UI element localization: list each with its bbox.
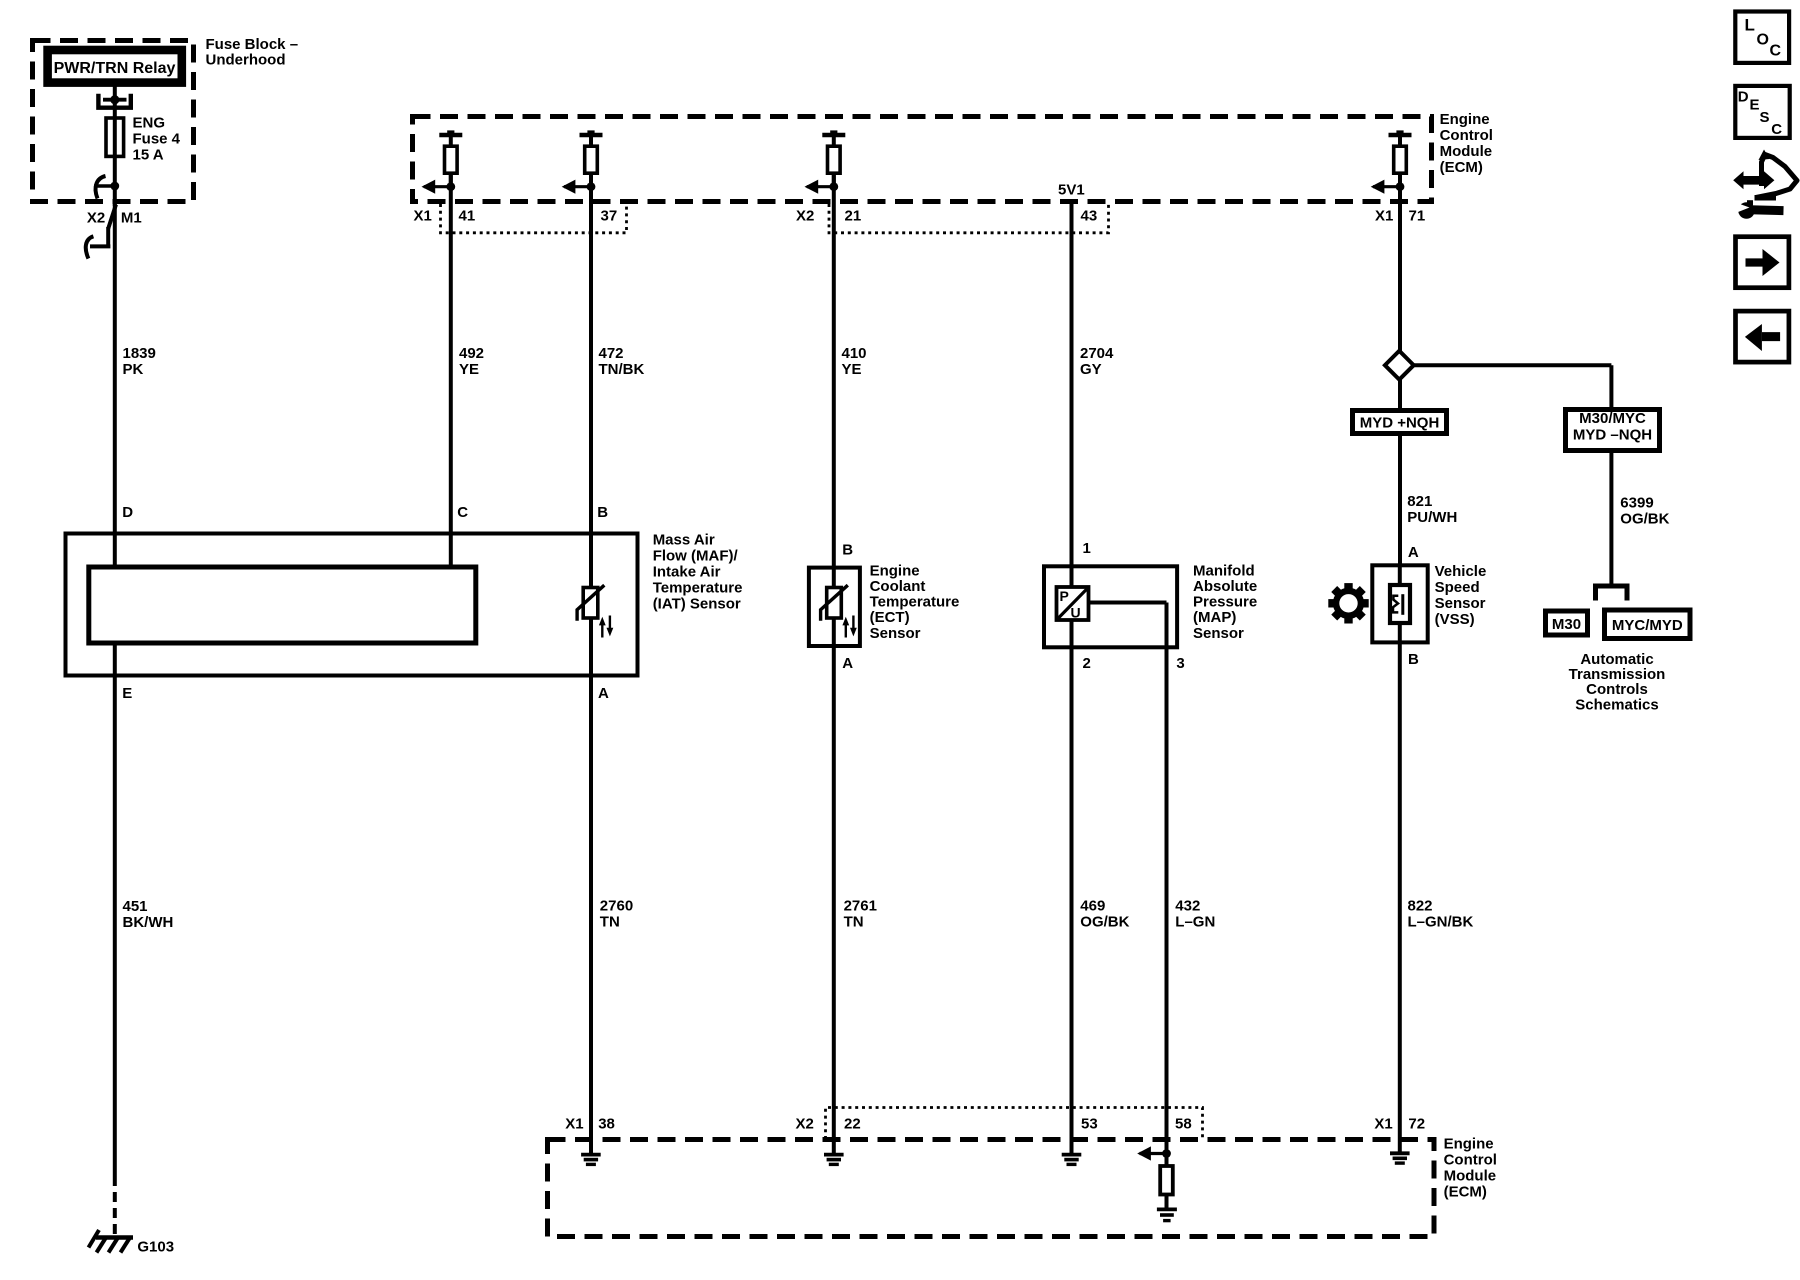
svg-text:Engine: Engine (870, 562, 920, 579)
fuse contact bar (103, 95, 127, 104)
svg-text:OG/BK: OG/BK (1080, 914, 1129, 931)
wire 1839 PK (115, 204, 156, 567)
svg-text:472: 472 (599, 345, 624, 362)
wire MAP 2 to pin 53 (1070, 620, 1074, 1153)
box M30/MYC MYD -NQH (1566, 410, 1660, 451)
svg-text:2761: 2761 (844, 898, 877, 915)
bottom pin labels X2 22 (796, 1116, 861, 1133)
resistor ECM pin 71 (1371, 130, 1412, 193)
ECT pin B label (842, 542, 853, 559)
connector X2 M1 labels (87, 209, 142, 226)
svg-text:(ECT): (ECT) (870, 609, 910, 626)
net 5V1 label (1058, 182, 1085, 199)
VSS sensor box (1372, 565, 1427, 642)
svg-text:C: C (1770, 43, 1782, 60)
svg-text:Engine: Engine (1444, 1135, 1494, 1152)
svg-text:G103: G103 (137, 1239, 174, 1256)
svg-text:(IAT) Sensor: (IAT) Sensor (653, 596, 741, 613)
MAP pin 1 label (1083, 540, 1091, 557)
svg-text:(ECM): (ECM) (1444, 1183, 1487, 1200)
resistor ECM pin 58 with arrow and ground (1137, 1146, 1177, 1220)
svg-text:B: B (597, 504, 608, 521)
MAF hot film element inner box (89, 567, 476, 643)
svg-text:O: O (1757, 32, 1769, 49)
label P U (1060, 588, 1081, 621)
wire MAP out to pin 3 (1089, 603, 1167, 1154)
box M30 (1546, 611, 1588, 635)
wire branch to M30/MYC (1413, 365, 1611, 409)
wire 492 YE (451, 173, 484, 567)
connector X1 dotted box pins 41 37 (441, 204, 627, 233)
IAT up down arrows (599, 616, 613, 638)
svg-text:2760: 2760 (600, 898, 633, 915)
svg-text:Temperature: Temperature (870, 594, 960, 611)
junction fuse output (94, 182, 119, 191)
pin labels X2 21 43 (796, 208, 1097, 225)
svg-text:YE: YE (842, 361, 862, 378)
fuse holder clip (98, 94, 130, 108)
svg-text:822: 822 (1408, 898, 1433, 915)
bottom pin labels X1 38 (565, 1116, 615, 1133)
svg-text:821: 821 (1407, 493, 1432, 510)
svg-text:X1: X1 (1374, 1116, 1392, 1133)
ground ECM pin 22 (824, 1155, 844, 1165)
svg-text:L–GN/BK: L–GN/BK (1408, 914, 1474, 931)
svg-text:Fuse 4: Fuse 4 (133, 131, 181, 148)
ECT pin A label (842, 655, 853, 672)
svg-text:D: D (122, 504, 133, 521)
svg-text:Flow (MAF)/: Flow (MAF)/ (653, 548, 739, 565)
svg-text:M1: M1 (121, 209, 142, 226)
pin labels X1 71 (1375, 208, 1425, 225)
terminal hook lower (86, 236, 94, 258)
label ENG Fuse 4 15 A (133, 115, 181, 164)
svg-text:Fuse Block –: Fuse Block – (206, 36, 299, 53)
note Automatic Transmission Controls Schematics (1569, 651, 1666, 714)
svg-text:58: 58 (1175, 1116, 1192, 1133)
wire 821 PU/WH (1400, 436, 1457, 567)
svg-text:Manifold: Manifold (1193, 562, 1255, 579)
svg-text:X2: X2 (796, 208, 814, 225)
svg-text:Control: Control (1444, 1151, 1497, 1168)
svg-text:71: 71 (1409, 208, 1426, 225)
wire 432 L-GN label (1175, 898, 1215, 931)
svg-text:Coolant: Coolant (870, 578, 926, 595)
svg-text:Vehicle: Vehicle (1435, 563, 1487, 580)
svg-text:Schematics: Schematics (1575, 697, 1658, 714)
label Engine Coolant Temperature (ECT) Sensor (870, 562, 960, 641)
svg-text:TN: TN (600, 914, 620, 931)
svg-text:Speed: Speed (1435, 579, 1480, 596)
svg-text:Mass Air: Mass Air (653, 532, 715, 549)
thermistor IAT (577, 585, 604, 621)
svg-text:MYD +NQH: MYD +NQH (1360, 415, 1440, 432)
svg-text:3: 3 (1176, 655, 1184, 672)
MAP pressure transducer square (1057, 587, 1089, 620)
resistor ECM pin 41 (422, 130, 463, 193)
MAP pin 2 3 labels (1083, 655, 1185, 672)
resistor ECM pin 37 (562, 130, 603, 193)
label Engine Control Module (ECM) bottom (1444, 1135, 1497, 1200)
box MYC/MYD (1605, 610, 1691, 639)
svg-text:6399: 6399 (1620, 495, 1653, 512)
svg-text:L–GN: L–GN (1175, 914, 1215, 931)
ground G103 (89, 1230, 134, 1253)
svg-text:TN: TN (844, 914, 864, 931)
wire 2761 TN label (844, 898, 877, 931)
wire 469 OG/BK label (1080, 898, 1129, 931)
svg-text:PK: PK (123, 361, 144, 378)
ECT sensor box (809, 568, 860, 646)
wire dashed to G103 (113, 1176, 117, 1236)
wire 410 YE (834, 173, 867, 587)
fuse block underhood dashed box (33, 41, 194, 202)
svg-text:Control: Control (1440, 127, 1493, 144)
svg-text:YE: YE (459, 361, 479, 378)
wire 6399 OG/BK (1611, 450, 1669, 584)
svg-text:Underhood: Underhood (206, 52, 286, 69)
svg-text:MYD –NQH: MYD –NQH (1573, 427, 1652, 444)
label Mass Air Flow (MAF) Intake Air Temperature (IAT) Sensor (653, 532, 743, 613)
VSS pickup symbol (1393, 594, 1404, 615)
svg-text:38: 38 (598, 1116, 615, 1133)
MAP sensor box (1044, 566, 1177, 647)
svg-text:A: A (598, 685, 609, 702)
resistor ECM pin 21 (805, 130, 846, 193)
svg-text:X1: X1 (565, 1116, 583, 1133)
svg-text:Temperature: Temperature (653, 580, 743, 597)
ECT up down arrows (842, 616, 856, 638)
svg-text:X1: X1 (1375, 208, 1393, 225)
svg-text:Intake Air: Intake Air (653, 564, 721, 581)
svg-text:B: B (1408, 651, 1419, 668)
terminal hook upper (96, 176, 106, 199)
svg-text:43: 43 (1081, 208, 1098, 225)
svg-text:53: 53 (1081, 1116, 1098, 1133)
svg-text:D: D (1738, 88, 1749, 105)
svg-text:410: 410 (842, 345, 867, 362)
bottom pin labels 53 58 (1081, 1116, 1192, 1133)
svg-text:2: 2 (1083, 655, 1091, 672)
svg-text:5V1: 5V1 (1058, 182, 1085, 199)
nav icon LOC (1735, 12, 1789, 63)
svg-text:A: A (1408, 544, 1419, 561)
ground ECM pin 38 (581, 1155, 601, 1165)
svg-text:492: 492 (459, 345, 484, 362)
VSS inner pickup box (1390, 565, 1410, 642)
svg-text:S: S (1760, 109, 1770, 126)
svg-text:BK/WH: BK/WH (123, 914, 174, 931)
wire MAF A to pin 38 (589, 618, 593, 1153)
VSS pin B label (1408, 651, 1419, 668)
pin labels X1 41 37 (414, 208, 618, 225)
svg-text:B: B (842, 542, 853, 559)
svg-text:U: U (1071, 605, 1081, 621)
svg-text:X1: X1 (414, 208, 432, 225)
svg-text:M30: M30 (1552, 616, 1581, 633)
MAF IAT sensor outer box (66, 534, 638, 676)
svg-text:C: C (1771, 121, 1782, 138)
svg-text:PU/WH: PU/WH (1407, 509, 1457, 526)
svg-text:451: 451 (123, 898, 148, 915)
svg-text:Pressure: Pressure (1193, 594, 1257, 611)
svg-text:37: 37 (601, 208, 618, 225)
svg-text:P: P (1060, 588, 1069, 604)
nav icon service wrench (1733, 200, 1784, 219)
ground ECM pin 53 (1062, 1155, 1082, 1165)
label Fuse Block - Underhood (206, 36, 299, 69)
svg-text:ENG: ENG (133, 115, 166, 132)
ECM bottom dashed box (548, 1140, 1435, 1237)
svg-text:1839: 1839 (123, 345, 156, 362)
svg-text:L: L (1745, 16, 1755, 35)
svg-text:Absolute: Absolute (1193, 578, 1257, 595)
svg-text:GY: GY (1080, 361, 1102, 378)
MAF pin letters D C B (122, 504, 608, 521)
svg-text:MYC/MYD: MYC/MYD (1612, 617, 1683, 634)
splice diamond (1385, 351, 1414, 380)
MAF pin letters E A (122, 685, 609, 702)
svg-text:PWR/TRN Relay: PWR/TRN Relay (54, 60, 176, 77)
ECM top dashed box (413, 117, 1432, 202)
svg-text:22: 22 (844, 1116, 861, 1133)
svg-text:Sensor: Sensor (1193, 625, 1244, 642)
svg-text:E: E (1750, 97, 1760, 114)
connector X2 dotted box pins 22 53 58 (826, 1108, 1203, 1140)
fuse ENG Fuse 4 15 A (106, 100, 124, 206)
relay PWR/TRN Relay (48, 50, 182, 83)
connector terminal jog (90, 205, 116, 247)
nav icon arrow back (1736, 311, 1789, 362)
wire 451 BK/WH label (123, 898, 174, 931)
wire 2760 TN label (600, 898, 633, 931)
svg-text:M30/MYC: M30/MYC (1579, 410, 1646, 427)
wire ECT A to pin 22 (832, 618, 836, 1153)
svg-text:1: 1 (1083, 540, 1091, 557)
wire 472 TN/BK (591, 173, 644, 587)
bracket splice to M30 MYC/MYD (1596, 586, 1628, 601)
svg-text:432: 432 (1175, 898, 1200, 915)
bottom pin labels X1 72 (1374, 1116, 1425, 1133)
box MYD +NQH (1353, 411, 1447, 434)
svg-text:469: 469 (1080, 898, 1105, 915)
svg-text:A: A (842, 655, 853, 672)
svg-text:Sensor: Sensor (1435, 595, 1486, 612)
label Vehicle Speed Sensor (VSS) (1435, 563, 1487, 628)
svg-text:(MAP): (MAP) (1193, 609, 1236, 626)
svg-text:21: 21 (845, 208, 862, 225)
label Engine Control Module (ECM) top (1440, 111, 1493, 176)
svg-text:X2: X2 (87, 209, 105, 226)
svg-text:72: 72 (1408, 1116, 1425, 1133)
label G103 (137, 1239, 174, 1256)
wire relay to fuse (113, 86, 117, 100)
svg-text:41: 41 (459, 208, 476, 225)
svg-text:(ECM): (ECM) (1440, 159, 1483, 176)
svg-text:TN/BK: TN/BK (599, 361, 645, 378)
gear icon (1328, 583, 1368, 623)
label Manifold Absolute Pressure (MAP) Sensor (1193, 562, 1257, 641)
wire 822 L-GN/BK (1400, 642, 1474, 1152)
svg-text:Engine: Engine (1440, 111, 1490, 128)
svg-text:(VSS): (VSS) (1435, 611, 1475, 628)
svg-text:OG/BK: OG/BK (1620, 511, 1669, 528)
svg-text:Sensor: Sensor (870, 625, 921, 642)
svg-text:X2: X2 (796, 1116, 814, 1133)
ground ECM pin 72 (1390, 1153, 1410, 1163)
nav icon arrow next (1736, 237, 1789, 288)
nav icon service double arrow (1733, 171, 1774, 189)
connector X2 dotted box pins 21 43 (829, 204, 1109, 233)
svg-text:Module: Module (1440, 143, 1493, 160)
wire 2704 GY 5V1 (1072, 204, 1115, 587)
svg-text:E: E (122, 685, 132, 702)
svg-text:C: C (457, 504, 468, 521)
VSS pin A label (1408, 544, 1419, 561)
svg-text:15 A: 15 A (133, 147, 164, 164)
wire MAF E to ground (113, 643, 117, 1176)
svg-text:2704: 2704 (1080, 345, 1114, 362)
thermistor ECT (821, 585, 848, 621)
wire ECM pin 71 to splice (1398, 173, 1402, 408)
svg-text:Module: Module (1444, 1167, 1497, 1184)
svg-text:Controls: Controls (1586, 681, 1648, 698)
nav icon DESC (1735, 86, 1789, 138)
nav icon service outline (1755, 150, 1798, 198)
